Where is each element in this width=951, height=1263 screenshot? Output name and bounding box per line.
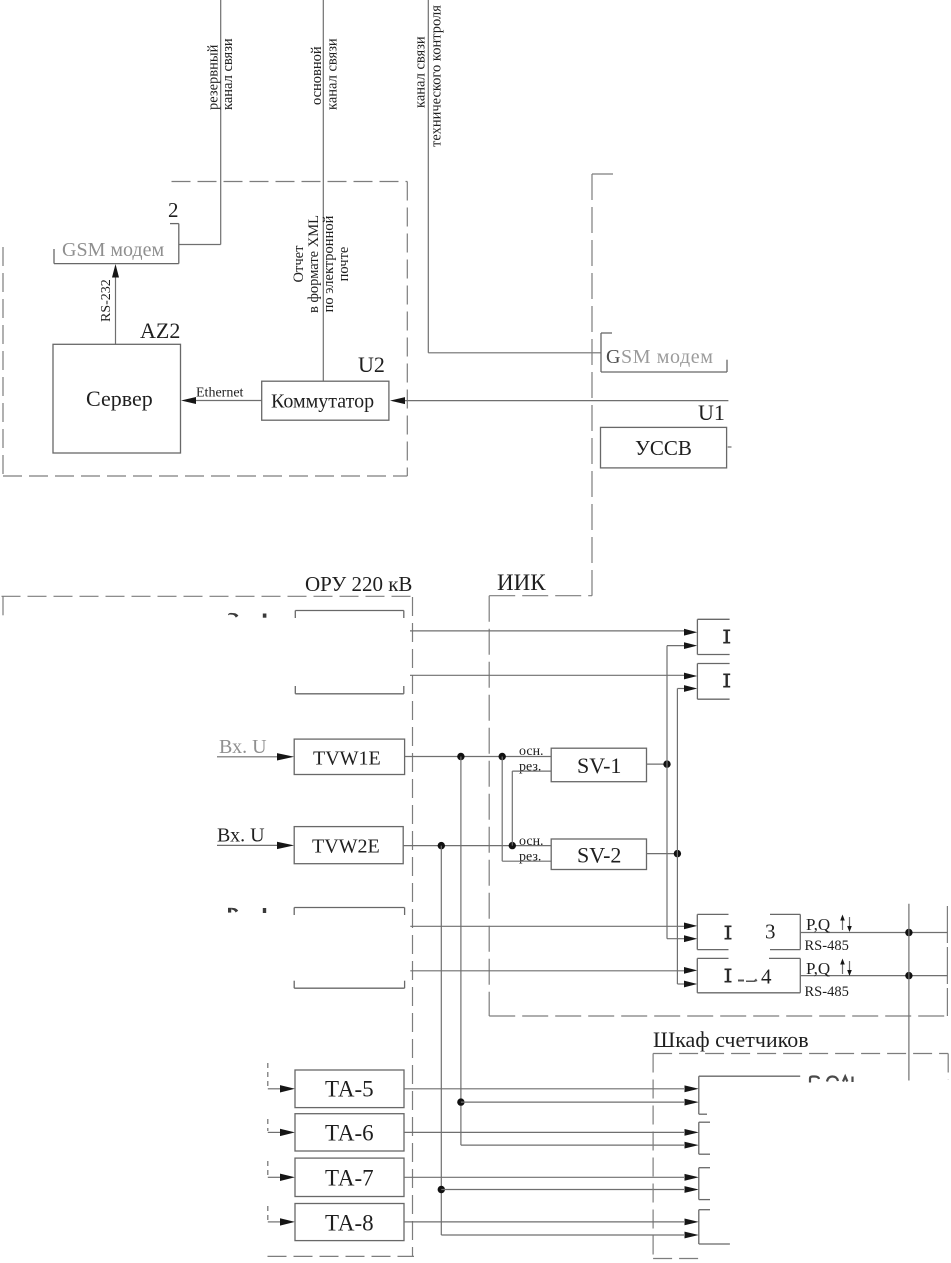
ТА-5 box xyxy=(295,1070,404,1108)
svg-text:Отчет: Отчет xyxy=(291,245,307,283)
arrowhead left into Коммутатор xyxy=(390,397,405,404)
wire into ПК7 input 2 xyxy=(441,1189,684,1191)
svg-text:ТА-7: ТА-7 xyxy=(325,1166,374,1191)
ПК3 text fragments xyxy=(725,926,732,940)
wire ТА-2 to ПК2 xyxy=(410,674,684,676)
svg-text:ТА-6: ТА-6 xyxy=(325,1121,374,1146)
input arrow xyxy=(268,1176,282,1178)
ТА-1 box (washed, top edge with corner ticks) xyxy=(295,611,404,619)
svg-text:Коммутатор: Коммутатор xyxy=(271,391,374,413)
bus SV-1 (x=667) ПК1 to ПК3 xyxy=(666,646,668,939)
wire: канал связи технического контроля (horizontal into GSM modem right) xyxy=(428,352,600,354)
svg-text:4: 4 xyxy=(761,965,772,989)
TVW1E box xyxy=(294,739,404,774)
arrowhead into ПК6 input 2 xyxy=(685,1142,699,1149)
wire ТА-6 to ПК6 xyxy=(404,1131,684,1133)
branch into ПК4 input 2 xyxy=(677,983,684,985)
svg-text:Вх. U: Вх. U xyxy=(219,736,267,758)
ИИК dashed border bottom xyxy=(489,1015,947,1017)
ПК5 washed label P,Q (top fragments) xyxy=(810,1077,853,1083)
wire ТА-1 to ПК1 xyxy=(410,630,684,632)
wire RS-232 (Сервер to GSM modem A2) xyxy=(115,276,117,344)
input arrow xyxy=(268,1088,282,1090)
arrowhead into ПК1 input 1 xyxy=(684,629,697,636)
wire SV-2 рез from TVW1E bus xyxy=(502,757,551,862)
faded label Вх. I (fragments) xyxy=(228,908,266,913)
junction dot TVW1E bus xyxy=(457,753,464,760)
svg-text:Вх. U: Вх. U xyxy=(217,825,265,847)
svg-text:SV-2: SV-2 xyxy=(577,843,621,868)
dashed enclosure АРМ (right edge) xyxy=(406,182,408,477)
svg-text:по электронной: по электронной xyxy=(321,215,337,312)
svg-text:ТА-8: ТА-8 xyxy=(325,1211,374,1236)
Сервер box AZ2 xyxy=(53,344,181,453)
junction dot SV-1 рез branch xyxy=(509,842,516,849)
svg-text:GSM модем: GSM модем xyxy=(62,239,164,261)
svg-text:УССВ: УССВ xyxy=(635,436,692,460)
svg-text:рез.: рез. xyxy=(519,850,541,865)
arrowhead into ПК8 input 1 xyxy=(685,1219,699,1226)
ОРУ dashed border top xyxy=(2,595,412,597)
tick on right of УССВ xyxy=(728,446,732,448)
branch into ПК3 input 2 xyxy=(667,938,684,940)
junction dot ПК5 branch xyxy=(457,1098,464,1105)
arrowhead into ПК6 input 1 xyxy=(685,1129,699,1136)
ТА-3 box (washed, top edge with corner ticks) xyxy=(294,908,404,916)
wire SV-1 output xyxy=(647,763,668,765)
dashed input tick xyxy=(267,1206,269,1220)
Коммутатор box U2 xyxy=(262,381,389,420)
junction dot on right bus xyxy=(905,929,912,936)
wire Ethernet (Коммутатор to Сервер) xyxy=(195,400,262,402)
ИИК dashed border top xyxy=(489,595,592,597)
label: основной канал связи xyxy=(309,38,341,110)
svg-text:рез.: рез. xyxy=(519,760,541,775)
svg-text:P,Q: P,Q xyxy=(806,959,830,978)
svg-text:G: G xyxy=(606,346,620,368)
bus TVW1E (x=460.9) xyxy=(461,757,684,1146)
up/down arrows (ПК3) xyxy=(843,917,850,930)
svg-text:U1: U1 xyxy=(698,400,725,425)
svg-text:Сервер: Сервер xyxy=(86,386,153,411)
GSM modem (right) box, partially washed outline xyxy=(601,333,727,372)
wire: резервный канал связи (vertical) xyxy=(220,0,222,245)
svg-text:Шкаф счетчиков: Шкаф счетчиков xyxy=(653,1027,809,1052)
label: резервный канал связи xyxy=(206,38,237,110)
dashed cabinet edge (vertical at x=592) xyxy=(591,174,593,596)
svg-text:в формате XML: в формате XML xyxy=(306,215,322,313)
dashed input tick xyxy=(267,1119,269,1131)
svg-text:RS-232: RS-232 xyxy=(99,279,114,322)
arrowhead into ПК8 input 2 xyxy=(685,1232,699,1239)
dashed box right (visible piece) xyxy=(947,1054,949,1080)
dashed input tick xyxy=(267,1161,269,1176)
junction dot ПК7 branch xyxy=(438,1186,445,1193)
wire TVW1E output to SV-1 осн xyxy=(405,756,552,758)
ПК4 text fragments xyxy=(725,969,732,983)
ПК1 text fragment xyxy=(723,630,730,644)
ИИК dashed border right xyxy=(946,906,948,1016)
wire: канал связи технического контроля (vertical) xyxy=(427,0,429,353)
SV-2 box xyxy=(551,839,646,870)
svg-text:RS-485: RS-485 xyxy=(805,938,849,954)
svg-text:канал связи: канал связи xyxy=(413,36,429,108)
arrow line into TVW2E xyxy=(217,844,282,846)
dashed enclosure АРМ (top edge) xyxy=(172,181,408,183)
wire SV-2 output xyxy=(647,853,678,855)
wire ТА-4 to ПК4 xyxy=(410,970,684,972)
wire SV-1 рез from TVW2E bus xyxy=(512,771,551,846)
input arrow xyxy=(268,1221,282,1223)
wire: основной канал связи (vertical into Коммутатор U2) xyxy=(322,0,324,381)
dashed cabinet edge (top tick) xyxy=(592,173,613,175)
ТА-8 box xyxy=(295,1204,404,1241)
svg-text:3: 3 xyxy=(765,920,776,944)
svg-text:почте: почте xyxy=(336,247,352,282)
junction dot SV-2 рез branch xyxy=(499,753,506,760)
SV-1 box xyxy=(551,748,646,782)
arrowhead up into GSM modem A2 xyxy=(112,264,119,278)
svg-text:TVW1E: TVW1E xyxy=(313,748,381,770)
wire ТА-7 to ПК7 xyxy=(404,1176,684,1178)
branch into ПК1 input 2 xyxy=(667,645,684,647)
wire: резервный канал связи (horizontal into GSM modem A2) xyxy=(179,244,221,246)
УССВ box U1 xyxy=(601,427,727,468)
arrowhead into ПК7 input 1 xyxy=(685,1174,699,1181)
svg-text:SM модем: SM модем xyxy=(621,346,714,368)
svg-text:U2: U2 xyxy=(358,352,385,377)
svg-text:канал связи: канал связи xyxy=(325,38,341,110)
svg-text:P,Q: P,Q xyxy=(806,915,830,934)
arrowhead into ПК2 input 1 xyxy=(684,673,697,680)
ИИК dashed border left xyxy=(488,596,490,1016)
ПК2 text fragment xyxy=(723,674,730,688)
label: Отчет в формате XML по электронной почте xyxy=(291,215,352,313)
junction dot SV-1 output bus xyxy=(663,760,670,767)
GSM modem A2 box (partially washed outline) xyxy=(54,224,179,264)
dashed enclosure АРМ (bottom edge) xyxy=(3,475,407,477)
svg-text:2: 2 xyxy=(168,198,179,222)
svg-text:осн.: осн. xyxy=(519,744,544,759)
ТА-4 box (washed, bottom edge with corner ticks) xyxy=(294,981,404,989)
input arrow xyxy=(268,1131,282,1133)
wire from УССВ column into Коммутатор right side xyxy=(404,400,728,402)
svg-text:AZ2: AZ2 xyxy=(140,318,180,343)
svg-text:ОРУ 220 кВ: ОРУ 220 кВ xyxy=(305,572,412,596)
ОРУ dashed border left (short visible piece) xyxy=(2,596,4,619)
svg-text:TVW2E: TVW2E xyxy=(312,836,380,858)
up/down arrows (ПК4) xyxy=(843,961,850,974)
ОРУ dashed border right xyxy=(412,597,414,1256)
wire TVW2E output to SV-2 осн xyxy=(403,845,551,847)
dashed enclosure АРМ (left edge) xyxy=(2,247,4,476)
wire ПК4 RS-485 output xyxy=(800,975,947,977)
label: канал связи технического контроля xyxy=(413,5,445,147)
arrow line into TVW1E xyxy=(217,756,282,758)
bus TVW2E (x=441.3) xyxy=(441,846,684,1235)
arrowhead left into Сервер xyxy=(181,397,196,404)
TVW2E box xyxy=(294,827,403,864)
ТА-6 box xyxy=(295,1114,404,1151)
ТА-7 box xyxy=(295,1158,404,1196)
branch into ПК2 input 2 xyxy=(677,688,684,690)
svg-text:SV-1: SV-1 xyxy=(577,753,621,778)
arrowhead into ПК5 input 1 xyxy=(685,1085,699,1092)
dashed box bottom (visible piece) xyxy=(653,1258,700,1260)
arrowhead into ПК4 input 1 xyxy=(684,967,697,974)
svg-text:канал связи: канал связи xyxy=(220,38,236,110)
dashed box left xyxy=(652,1054,654,1261)
wire ТА-5 to ПК5 xyxy=(404,1088,684,1090)
dashed box top xyxy=(653,1053,948,1055)
bus SV-2 (x=677.4) ПК2 to ПК4 xyxy=(676,689,678,985)
svg-text:Ethernet: Ethernet xyxy=(196,386,244,401)
wire ТА-8 to ПК8 xyxy=(404,1221,684,1223)
dashed input tick xyxy=(267,1063,269,1087)
svg-text:ТА-5: ТА-5 xyxy=(325,1077,374,1102)
svg-text:осн.: осн. xyxy=(519,834,544,849)
ТА-2 box (washed, bottom edge with corner ticks) xyxy=(295,686,404,694)
wire into ПК5 input 2 xyxy=(461,1101,684,1103)
junction dot on right bus xyxy=(905,972,912,979)
wire ПК3 RS-485 output xyxy=(800,932,947,934)
junction dot TVW2E bus xyxy=(438,842,445,849)
faded label Вх. I (fragments) xyxy=(228,613,266,618)
arrowhead into ПК3 input 1 xyxy=(684,923,697,930)
svg-text:ИИК: ИИК xyxy=(497,570,546,595)
junction dot SV-2 output bus xyxy=(674,850,681,857)
svg-text:основной: основной xyxy=(309,46,325,105)
ОРУ dashed border bottom (visible part) xyxy=(268,1255,415,1257)
wire ТА-3 to ПК3 xyxy=(410,925,684,927)
svg-text:RS-485: RS-485 xyxy=(805,984,849,1000)
svg-text:технического контроля: технического контроля xyxy=(429,5,445,147)
